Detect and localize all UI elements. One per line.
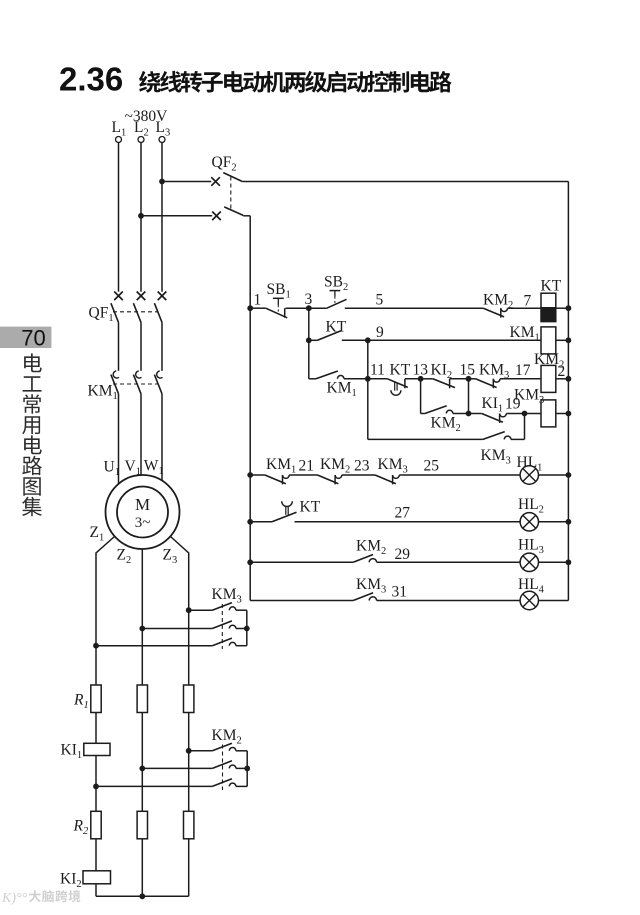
node 19 junction	[522, 411, 528, 417]
node rail2 HL1	[566, 472, 572, 478]
wire V1 to motor	[140, 394, 142, 475]
wire Z2 R2 to star bus	[141, 839, 143, 897]
wire rung5 riser	[524, 414, 526, 440]
breaker QF2 pole 1	[162, 173, 568, 186]
contact KT NO delayed (HL2)	[250, 501, 520, 522]
pushbutton SB2	[327, 291, 484, 309]
breaker QF1 pole 1	[111, 292, 123, 323]
breaker QF1 pole 2	[133, 292, 145, 323]
contact KM3 NO (HL4)	[250, 593, 520, 601]
wire L1 QF1 to KM1	[118, 322, 120, 370]
wire Z3 R1 to R2	[188, 713, 190, 812]
wire node13 drop	[420, 379, 422, 414]
resistor R1 element 3	[184, 685, 194, 713]
lamp HL3	[520, 553, 568, 571]
contact KM3 NO (rung 5)	[368, 432, 525, 440]
relay KI1 coil	[84, 743, 110, 755]
svg-text:25: 25	[424, 458, 440, 475]
svg-text:5: 5	[376, 292, 384, 309]
node rung HL2 left	[247, 519, 253, 525]
svg-text:K)°°: K)°°	[1, 891, 28, 906]
wire KM3 shorting bar	[246, 610, 248, 646]
svg-text:17: 17	[515, 362, 531, 379]
node KM3 bar junction	[244, 626, 250, 632]
svg-text:11: 11	[370, 362, 385, 379]
wire L2 QF1 to KM1	[140, 322, 142, 370]
svg-text:3: 3	[305, 291, 313, 308]
contactor KM1 main pole 2	[133, 371, 141, 394]
node rail2 rung3	[566, 376, 572, 382]
contact KT NO (rung 2)	[309, 331, 368, 341]
wire phase L2	[140, 143, 142, 292]
node rail2 rung2	[566, 337, 572, 343]
wire phase L1	[118, 143, 120, 292]
resistor R1 element 1	[91, 685, 101, 713]
wire U1 to motor	[118, 394, 120, 484]
contact KM2 NC (rung 1)	[483, 308, 541, 317]
contactor KM3 rotor contact 2	[139, 621, 246, 631]
resistor R2 element 2	[137, 811, 147, 839]
node 11	[365, 362, 385, 382]
wire Z1 KI1 to R2	[95, 756, 97, 812]
node QF2 tap on L3	[159, 179, 165, 185]
motor M inner circle	[117, 487, 168, 538]
wire rotor Z1	[96, 537, 115, 646]
motor M outer circle	[106, 475, 180, 549]
wire star bus	[96, 895, 189, 897]
wire Z3 R2 to star bus	[188, 839, 190, 897]
svg-text:KT: KT	[300, 499, 321, 516]
svg-text:70: 70	[21, 326, 45, 351]
lamp HL4	[520, 591, 568, 609]
node KM2 bar junction	[244, 766, 250, 772]
contact KM2 NO (rung 4)	[421, 406, 469, 414]
lamp HL1	[520, 466, 568, 484]
contact KM3 NC (rung 3)	[469, 379, 542, 388]
svg-text:27: 27	[395, 505, 411, 522]
wire Z3 KM3 to R1	[188, 610, 190, 685]
svg-text:31: 31	[392, 584, 408, 601]
relay KI2 coil	[83, 871, 111, 884]
svg-text:15: 15	[460, 362, 476, 379]
title	[59, 61, 452, 98]
breaker QF1 pole 3	[154, 292, 166, 323]
contactor KM2 rotor contact 1	[186, 743, 247, 753]
contact KM2 NO (HL3)	[250, 555, 520, 563]
svg-text:29: 29	[395, 546, 411, 563]
contactor KM3 rotor contact 3	[93, 638, 247, 649]
wire KM2 shorting bar	[246, 751, 248, 787]
wire node15 drop	[468, 379, 470, 414]
node 15	[460, 362, 476, 382]
contact KM1 NC (HL1)	[250, 475, 317, 484]
node rung HL1 left	[247, 472, 253, 478]
page number block 70	[0, 326, 51, 351]
wire Z2 KM3 to R1	[141, 629, 143, 686]
node star junction	[139, 893, 145, 899]
wire L3 QF1 to KM1	[161, 322, 163, 370]
svg-text:23: 23	[354, 458, 370, 475]
svg-text:13: 13	[413, 362, 429, 379]
wire phase L3	[161, 143, 163, 292]
terminal L1	[112, 119, 127, 143]
terminal L2	[134, 119, 149, 143]
contact KM2 NC (HL1)	[318, 475, 376, 484]
contact KT NC delayed (rung 3)	[368, 379, 421, 395]
node 13	[413, 362, 429, 382]
breaker QF2 linkage	[230, 177, 232, 211]
contactor KM2 rotor linkage	[222, 745, 224, 791]
sidebar book title	[22, 353, 42, 516]
contactor KM2 rotor contact 3	[93, 779, 247, 790]
contactor KM3 rotor contact 1	[186, 603, 247, 614]
svg-text:7: 7	[524, 293, 532, 310]
node rail2 HL2	[566, 519, 572, 525]
wire rotor Z3	[171, 537, 189, 611]
wire control left rail (1)	[249, 216, 251, 601]
contact KM1 NO (rung 3)	[309, 371, 368, 379]
resistor R2 element 1	[91, 811, 101, 839]
contactor KM1 coil	[541, 327, 568, 354]
wire Z1 KI2 to star bus	[95, 884, 97, 897]
node rung HL3 left	[247, 559, 253, 565]
contactor KM3 rotor linkage	[221, 604, 223, 649]
wire W1 to motor	[161, 394, 163, 481]
wire Z1 R1 to KI1	[95, 713, 97, 744]
contactor KM2 rotor contact 2	[139, 761, 247, 772]
wire node11 drop	[367, 340, 369, 439]
svg-text:1: 1	[254, 292, 262, 309]
svg-text:2: 2	[558, 363, 566, 380]
svg-text:M: M	[135, 495, 150, 514]
contact KI1 NC (rung 4)	[469, 414, 525, 423]
svg-text:9: 9	[376, 324, 384, 341]
node 1	[247, 292, 261, 312]
svg-text:2.36: 2.36	[59, 61, 123, 98]
wire Z1 R2 to KI2	[95, 839, 97, 871]
terminal L3	[156, 119, 171, 143]
node rail2 HL3	[566, 559, 572, 565]
wire Z1 KM3 to R1	[95, 646, 97, 685]
node rail2 rung1	[566, 305, 572, 311]
resistor R2 element 3	[184, 811, 194, 839]
contact KM3 NC (HL1)	[375, 475, 520, 484]
svg-text:KT: KT	[390, 362, 411, 379]
pushbutton SB1	[250, 298, 327, 318]
breaker QF2 pole 2	[141, 207, 250, 220]
contactor KM3 coil	[525, 400, 569, 427]
wire rotor Z2	[141, 549, 143, 629]
contactor KM1 main pole 3	[154, 371, 162, 394]
svg-text:KT: KT	[541, 278, 562, 295]
wire control right rail (2)	[567, 182, 569, 601]
wire Z2 R1 to R2	[141, 713, 143, 812]
node QF2 tap on L2	[138, 213, 144, 219]
svg-text:3~: 3~	[135, 515, 151, 531]
contactor KM1 main pole 1	[111, 371, 119, 394]
contactor KM2 coil	[541, 365, 568, 392]
wire rung2 to KM1 coil	[368, 339, 541, 341]
lamp HL2	[520, 513, 568, 531]
node 3	[305, 291, 313, 311]
wire node3 drop	[308, 308, 310, 379]
node 15-19 junction	[466, 411, 472, 417]
contact KI2 NC (rung 3)	[421, 379, 469, 389]
node rail2 rung4	[566, 411, 572, 417]
breaker QF1 linkage	[113, 311, 158, 313]
resistor R1 element 2	[137, 685, 147, 713]
contactor KM1 linkage	[113, 383, 158, 385]
node 3-9 junction	[306, 337, 312, 343]
node 9	[365, 324, 384, 343]
relay KT coil	[541, 293, 568, 321]
svg-text:21: 21	[299, 458, 315, 475]
watermark	[1, 890, 80, 906]
